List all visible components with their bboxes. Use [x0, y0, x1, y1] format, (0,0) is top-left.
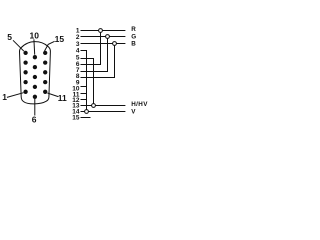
wire pin4 down to V shield circle [81, 51, 87, 110]
wire pin6 up to R shield circle [81, 32, 101, 64]
stub pin15 [81, 117, 91, 119]
wire pin2 -> G [81, 36, 126, 38]
svg-text:R: R [131, 26, 136, 33]
pin15 contact [43, 51, 47, 55]
pin4 contact [23, 60, 27, 64]
svg-text:1: 1 [2, 92, 7, 102]
pin7 contact [33, 85, 37, 89]
pin3 contact [23, 70, 27, 74]
coax shield circle R [99, 29, 103, 33]
pin11 contact [43, 90, 47, 94]
pin8 contact [33, 75, 37, 79]
pin2 contact [23, 80, 27, 84]
svg-text:15: 15 [72, 115, 80, 122]
svg-text:6: 6 [32, 115, 37, 125]
leader pin6 [34, 99, 36, 116]
pin14 contact [43, 60, 47, 64]
wire pin7 up to G shield circle [81, 38, 108, 71]
pin9 contact [33, 65, 37, 69]
wire pin1 -> R [81, 30, 126, 32]
right side pin number column [72, 27, 80, 121]
pin6 contact [33, 95, 37, 99]
leader pin10 [33, 39, 36, 54]
wire pin3 -> B [81, 43, 126, 45]
svg-text:V: V [131, 108, 136, 115]
coax shield circle H [92, 104, 96, 108]
wire pin13 -> H/HV [81, 105, 126, 107]
connector labels [2, 31, 67, 125]
svg-text:11: 11 [58, 93, 67, 103]
leader pin15 [45, 41, 55, 51]
svg-text:B: B [131, 41, 136, 48]
pin1 contact [23, 90, 27, 94]
coax shield circle V [85, 110, 89, 114]
leader pin1 [7, 93, 24, 98]
stub pin11 [81, 93, 87, 95]
pin10 contact [33, 55, 37, 59]
connector shell (DE-15 face outline) [19, 42, 50, 104]
svg-text:5: 5 [7, 32, 12, 42]
pin13 contact [43, 70, 47, 74]
svg-text:15: 15 [55, 34, 65, 44]
leader pin11 [47, 93, 58, 97]
coax shield circle G [106, 35, 110, 39]
svg-text:10: 10 [30, 31, 40, 41]
pin12 contact [43, 80, 47, 84]
wire pin5 down to H shield circle [81, 59, 94, 104]
connector pins: left col 1-5, mid col 6-10, right col 11-15 [23, 51, 47, 99]
svg-text:G: G [131, 34, 136, 41]
svg-text:H/HV: H/HV [131, 101, 148, 108]
wire pin8 up to B shield circle [81, 45, 115, 77]
coax shield circle B [113, 42, 117, 46]
wire pin14 -> V [81, 111, 126, 113]
stub pin12 [81, 99, 87, 101]
pin5 contact [23, 51, 27, 55]
leader pin5 [13, 40, 24, 51]
stub pin10 [81, 86, 87, 88]
signal labels [131, 26, 148, 115]
